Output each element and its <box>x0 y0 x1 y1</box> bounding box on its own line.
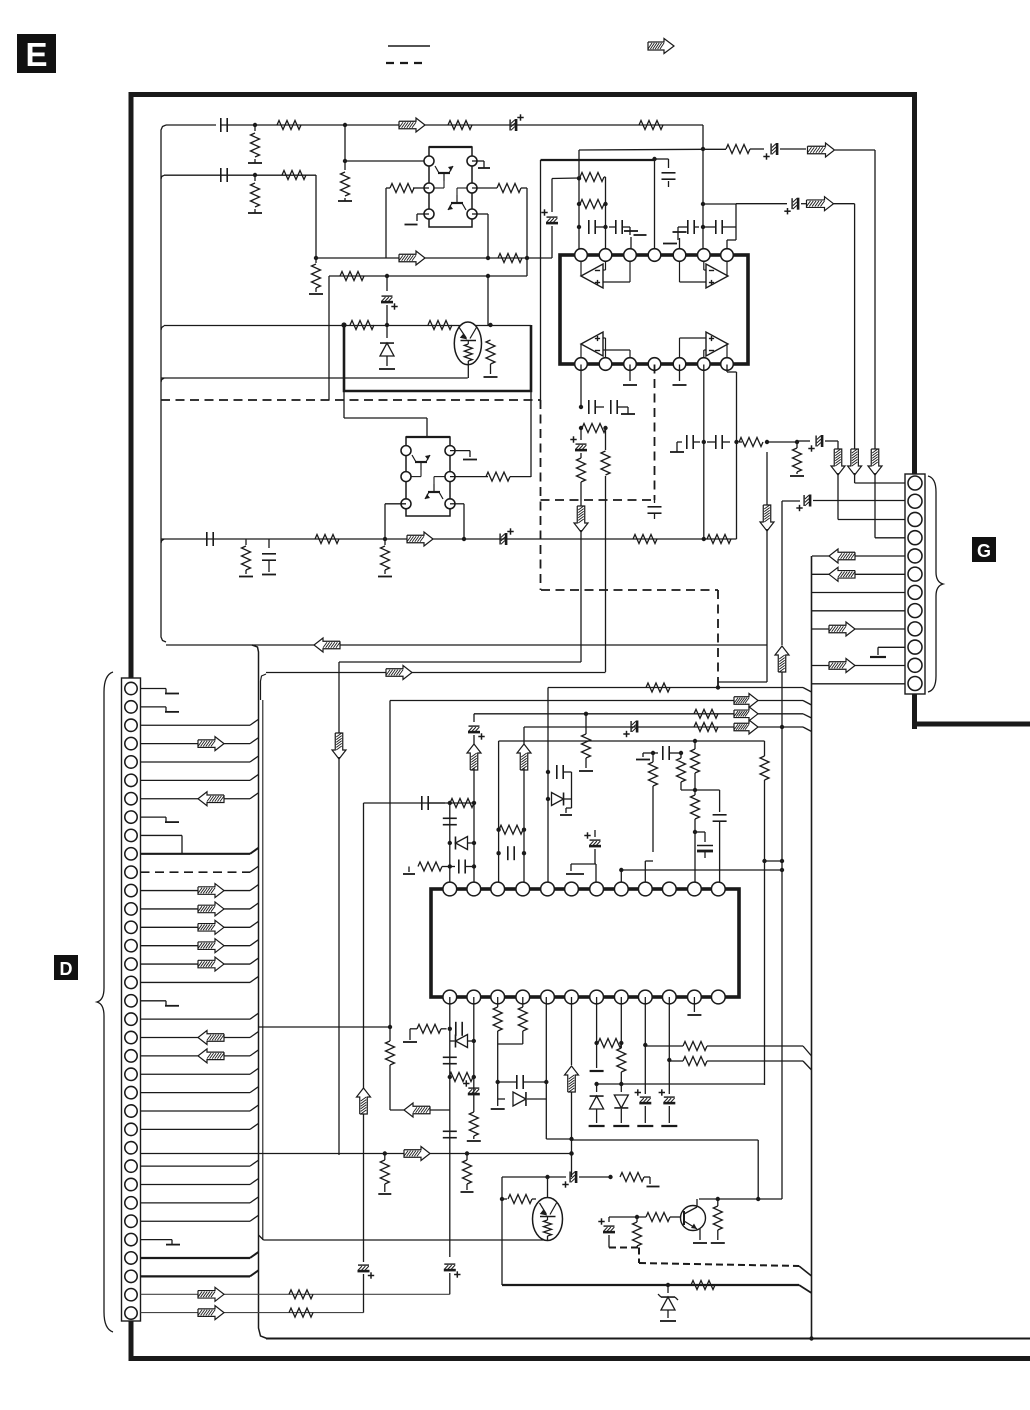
signal arrow A19 col339 down <box>332 733 346 759</box>
junction col499/row1082 <box>496 1080 500 1084</box>
resistor R33 row1294 <box>289 1290 313 1299</box>
connector D (35-pin) <box>122 678 141 1321</box>
ground IC1 pin5 bottom <box>673 365 687 386</box>
junction row727/col782 <box>780 725 784 729</box>
wire D pin9 elbow <box>141 835 183 853</box>
wire D pin7 <box>141 793 259 799</box>
wire D pin11 (dashed) <box>141 866 259 872</box>
junction col579/row178 <box>577 176 581 180</box>
ground stub row442 left <box>670 442 684 452</box>
wire bus inner curve <box>261 674 267 700</box>
junction col527/row258 <box>525 256 529 260</box>
dashed col655 below IC1 pin4 <box>654 365 656 501</box>
junction row258/col316 <box>314 256 318 260</box>
wire D pin13 <box>141 903 259 909</box>
capacitor C8 row227 left <box>684 220 699 234</box>
signal arrow A20 row258 <box>399 251 425 265</box>
signal arrow A6 col855 down <box>848 449 862 475</box>
dashed row590 <box>541 589 718 591</box>
junction col524/row830 <box>522 828 526 832</box>
junction row325/col490 <box>488 323 492 327</box>
wire col838 to G pin3 <box>838 473 905 520</box>
svg-text:D: D <box>60 959 73 979</box>
signal arrow D15 <box>198 939 224 953</box>
capacitor C41 (polarized) col669 <box>659 997 678 1126</box>
junction col548/row772 <box>546 770 550 774</box>
ground stub IC2 pin11 bottom <box>687 997 701 1015</box>
resistor R37 col653 <box>649 753 658 852</box>
resistor R19 row727 <box>694 723 718 732</box>
signal arrow D12 <box>198 884 224 898</box>
wire col838 corner down <box>837 441 839 449</box>
junction col474/row803 <box>472 801 476 805</box>
wire T2 bot-left to col385 <box>385 504 406 539</box>
wire D pin19 <box>141 1013 259 1019</box>
wire row418 hang <box>344 391 427 437</box>
signal arrow A23 row1110 <box>404 1103 430 1117</box>
wire col474 below IC2 <box>473 997 475 1112</box>
diode D2 row799 <box>548 793 572 806</box>
ground IC1 pin3 bottom <box>623 365 637 386</box>
signal arrow A3 row203 <box>807 197 834 211</box>
wire row1199 <box>699 1198 782 1200</box>
capacitor C26 row853 <box>508 846 514 860</box>
wire D pin28 <box>141 1178 259 1184</box>
capacitor C3 row2 <box>221 168 227 182</box>
resistor R45 col499 below IC2 <box>493 997 502 1044</box>
resistor R24 row325 <box>350 321 374 330</box>
capacitor C29 row753 <box>643 746 681 760</box>
wire col703 to row539 <box>703 442 705 539</box>
capacitor C16 row442 <box>707 435 730 449</box>
signal arrow A9 col782 up <box>775 646 789 672</box>
wire col541 solid <box>540 160 542 400</box>
resistor R20 row688 <box>646 683 670 692</box>
bold row1285 <box>502 1285 812 1293</box>
wire row1045 <box>645 1042 811 1057</box>
wire row178 left corner <box>552 177 579 180</box>
junction col579/row227 <box>577 225 581 229</box>
wire col579 (IC1 pin1 column up) <box>578 150 580 255</box>
junction row753/col653 <box>651 751 655 755</box>
dashed bold row1248 <box>609 1248 639 1264</box>
resistor R7 col345 to ground <box>338 161 352 201</box>
wire G pin12 row683 <box>812 683 905 685</box>
wire G pin11 row665 <box>812 665 905 667</box>
resistor R29 row539 <box>315 535 339 544</box>
junction row442/col797 <box>795 440 799 444</box>
capacitor C11 (polarized) row203 <box>784 198 806 215</box>
capacitor C9 row227 right <box>703 220 736 234</box>
wire row204 right seg <box>703 203 736 205</box>
junction col582/row407 <box>579 405 583 409</box>
zener diode ZD1 <box>658 1285 678 1321</box>
wire row1140 to col758 <box>572 1140 759 1199</box>
wire T2 bot-right to col464 <box>450 504 464 539</box>
signal arrow A12 G pin9 <box>829 622 855 636</box>
diode D6 col621 (down) <box>613 1095 629 1126</box>
diode D4 row1041 <box>450 1035 474 1048</box>
junction col499/row830 <box>496 828 500 832</box>
dashed row400 <box>161 399 541 401</box>
photocoupler PC2 <box>533 1198 563 1241</box>
junction col605/row227 <box>603 225 607 229</box>
junction col387/row325 <box>385 323 389 327</box>
wire trunk col782 lower <box>781 672 783 1199</box>
wire row790 <box>681 789 720 791</box>
capacitor C22 row539 <box>207 532 213 546</box>
wire col767 down <box>766 452 768 507</box>
wire col653 bottom <box>645 786 653 882</box>
junction col474/row1041 <box>472 1039 476 1043</box>
wire row203 <box>736 203 787 205</box>
junction col703/row442 <box>702 440 706 444</box>
wire trunk fillet row378 <box>161 378 164 382</box>
wire row645 <box>166 644 767 646</box>
junction col582/row428 <box>579 426 583 430</box>
resistor R9 T1 mid-right <box>472 184 527 193</box>
resistor R26 col490 below row325 <box>484 325 498 377</box>
capacitor C33 col450 <box>443 818 457 824</box>
wire col390 <box>389 701 391 1028</box>
signal arrow A24 col474 up <box>467 744 481 770</box>
wire D pin16 <box>141 958 259 964</box>
resistor R39 col695 <box>691 739 700 790</box>
wire row149 right <box>703 148 726 150</box>
wire col474 upper <box>473 714 475 722</box>
wire col527 <box>526 188 528 276</box>
ground stub D pin31 <box>141 1240 181 1245</box>
U1a feedback wires <box>603 262 630 282</box>
signal arrow D14 <box>198 920 224 934</box>
resistor R49 col385 <box>378 1154 391 1195</box>
resistor R18 row713 <box>694 709 718 718</box>
junction row1285/zener <box>666 1283 670 1287</box>
legend solid-line (shielded wiring key) <box>388 45 430 47</box>
wire col363 top corner <box>363 803 365 1088</box>
signal arrow A11 G pin6 <box>829 567 855 581</box>
ground stub T2 top-right <box>450 451 477 460</box>
wire row1083 <box>597 1083 765 1085</box>
wire col621 below IC2 <box>620 997 622 1048</box>
wire row688 <box>548 688 812 693</box>
wire row1 corner to col703 <box>0 0 1 1</box>
resistor R13 row428 <box>581 424 606 433</box>
diode D3 row843 <box>450 837 474 850</box>
wire row1 y=125 <box>166 124 703 126</box>
wire D pin29 <box>141 1197 259 1203</box>
capacitor C38 (polarized) col450 bottom <box>444 1264 461 1294</box>
signal arrow A5 col838 down <box>831 449 845 475</box>
wire col499 lower <box>497 1044 499 1099</box>
capacitor C21 (polarized) col387 <box>381 276 398 325</box>
bold wire U-loop <box>344 325 531 391</box>
bold capacitor C31 col705 <box>693 830 713 858</box>
resistor R38 col681 <box>677 753 686 790</box>
resistor R28 col246 to ground <box>239 539 253 577</box>
resistor R27 T2 mid-right <box>450 472 531 481</box>
diode D5 row1099 <box>498 1092 547 1106</box>
wire D pin4 <box>141 738 259 744</box>
wire col605 (IC1 pin2 column up) <box>605 177 607 255</box>
junction row258/col552 <box>0 0 1 1</box>
wire col621 to diode <box>620 1084 622 1092</box>
signal arrow A15 row714 <box>734 707 758 721</box>
dashed col541 <box>540 400 542 590</box>
wire col386 from R8 down <box>385 188 387 258</box>
resistor R6 row2 <box>282 171 306 180</box>
section label E <box>17 34 56 73</box>
wire row539 <box>161 538 737 540</box>
wire D pin10 (bold) <box>141 848 259 854</box>
ground stub T1 pin top-right <box>472 161 490 168</box>
wire trunk col812 <box>811 556 813 1339</box>
wire col548 (row688 to IC2 pin5) <box>547 688 549 883</box>
junction col464/row539 <box>462 537 466 541</box>
wire trunk left (node A) vertical x=161 <box>161 125 166 642</box>
wire row325 <box>161 326 531 331</box>
wire D pin12 <box>141 885 259 891</box>
section label G <box>972 537 996 562</box>
junction col345/row161 <box>343 159 347 163</box>
wire row727 <box>524 727 812 732</box>
junction col812/row1339 <box>809 1336 813 1340</box>
wire G pin7 row592 <box>812 592 905 594</box>
signal arrow A18 row672 <box>386 666 412 680</box>
connector G (12-pin) <box>905 474 925 694</box>
dashed row868 (D area) <box>140 871 142 873</box>
resistor R12 row149 <box>726 145 764 154</box>
resistor R11 row204 <box>579 200 606 209</box>
wire bus inner col263 <box>262 700 264 1240</box>
wire col450 below IC2 <box>449 997 451 1257</box>
resistor R4 row1 right <box>639 121 663 130</box>
capacitor C32 row803 <box>422 796 445 810</box>
wire D pin30 <box>141 1215 259 1221</box>
wire D pin6 <box>141 774 259 780</box>
capacitor C5 (polarized) col552 <box>541 179 558 259</box>
capacitor C15 row442 <box>687 435 700 449</box>
junction row159/col654 <box>652 157 656 161</box>
wire G pin5 row556 <box>812 555 905 557</box>
wire D pin22 <box>141 1068 259 1074</box>
capacitor C28 (polarized) col595 <box>584 830 601 864</box>
wire trunk col782 <box>781 501 783 645</box>
junction row442/col767 <box>765 440 769 444</box>
resistor R43 row1077 <box>448 1073 476 1082</box>
wire D pin21 <box>141 1050 259 1056</box>
wire row803 <box>364 802 475 804</box>
photocoupler PC1 <box>454 322 481 378</box>
board outline (thick border, left/top/right) <box>129 95 1030 1359</box>
wire col582 to row662 <box>580 530 582 662</box>
resistor R53 Q5 base <box>646 1213 681 1222</box>
ground elbow IC2 pin7 top <box>566 864 596 888</box>
signal arrow A21 row539 <box>407 532 433 546</box>
wire D pin5 <box>141 756 259 762</box>
dashed row500 <box>541 499 655 501</box>
resistor R55 row1285 <box>691 1281 715 1290</box>
transistor Q5 <box>681 1206 706 1231</box>
wire row2 y=175 <box>161 175 316 179</box>
junction row1199/col758 <box>756 1197 760 1201</box>
brace for connector D <box>97 672 113 1332</box>
wire D pin23 <box>141 1087 259 1093</box>
ground IC1 pin5 top <box>673 232 687 255</box>
resistor R46 col524 below IC2 <box>498 997 528 1044</box>
signal arrow A16 row727 <box>734 720 758 734</box>
resistor R36 row830 <box>499 825 523 834</box>
wire row1153 end junction <box>383 1151 574 1155</box>
wire D pin34 long (row1294) <box>141 1293 450 1295</box>
wire row1139 <box>546 1138 571 1140</box>
wire col571 seg <box>571 772 573 799</box>
resistor R17 col797 to ground <box>790 442 804 476</box>
resistor R40 col695 lower <box>691 790 700 882</box>
op-amp U1c <box>581 332 603 358</box>
junction row276/col488 <box>486 274 490 278</box>
wire T1 bot-right elbow to col488 <box>472 214 488 258</box>
wire col450 above IC2 <box>449 803 451 882</box>
wire bus col259 <box>252 645 267 1339</box>
wire col764 (row741 down) <box>760 741 784 1085</box>
signal arrow A10 G pin5 <box>829 549 855 563</box>
wire col474 to IC2 <box>473 803 475 882</box>
capacitor C34 row1029 <box>456 1022 474 1036</box>
junction col390/row1027 <box>388 1025 392 1029</box>
resistor R52 col637 <box>633 1217 642 1248</box>
junction col703/row204 <box>701 202 705 206</box>
dashed col718 <box>716 590 720 690</box>
wire row160 (bold) <box>541 159 655 161</box>
signal arrow D7 <box>198 792 224 806</box>
resistor R8 T1 mid-left <box>386 184 429 193</box>
resistor R3 row1 <box>448 121 472 130</box>
wire col654 (IC1 pin4 up) <box>654 159 656 255</box>
wire row442 to col797 <box>767 441 797 443</box>
wire row378 <box>161 377 468 379</box>
thick border above D <box>129 95 134 679</box>
wire col502 <box>500 1177 504 1285</box>
wire row662 <box>339 661 581 663</box>
junction col385/row539 <box>383 537 387 541</box>
diode D7 col596 (up) <box>589 1082 605 1126</box>
section label D <box>54 955 78 980</box>
wire row701 <box>390 701 812 706</box>
wire col363 to row1313 <box>363 1274 365 1313</box>
resistor R48 col621 <box>617 1048 626 1084</box>
signal-processor IC U2 <box>431 882 739 1004</box>
ground stub D pin8 <box>141 817 180 822</box>
junction bold/row325 <box>341 322 346 327</box>
transistor pair Q1/Q2 block <box>424 147 477 227</box>
wire col582 below IC1 <box>580 365 582 408</box>
signal arrow A26 col572 up <box>565 1066 579 1092</box>
wire col329 <box>328 276 330 400</box>
signal arrow A25 col524 up <box>517 744 531 770</box>
resistor R5 (to ground) col255b <box>248 175 262 213</box>
capacitor C14 (polarized) col582 <box>570 428 587 458</box>
wire col572 lower <box>569 1092 573 1177</box>
capacitor C4 end of row159 <box>655 159 676 187</box>
signal arrow D16 <box>198 957 224 971</box>
signal arrow A8 col767 down <box>760 505 774 531</box>
junction col474/row843 <box>472 841 476 845</box>
signal arrow A14 row701 <box>734 694 758 708</box>
resistor R1 (to ground) col255 <box>248 125 262 163</box>
wire row1177 chain <box>502 1171 660 1188</box>
brace for connector G <box>928 476 943 692</box>
capacitor C35 col450 <box>443 1057 457 1063</box>
wire row713 col586 <box>579 712 593 771</box>
signal arrow A22 row1153 <box>404 1147 430 1161</box>
resistor R23 row276 <box>340 272 364 281</box>
junction col605/row204 <box>603 202 607 206</box>
junction col605/row428 <box>603 426 607 430</box>
junction col736/row442 <box>734 440 738 444</box>
resistor R54 col718 <box>711 1199 725 1243</box>
capacitor C42 (polarized) col609 <box>598 1217 615 1248</box>
wire col703 (IC1 pin6 up to row125) <box>702 125 704 255</box>
resistor R15 col605 <box>601 428 610 672</box>
resistor R41 row803 <box>450 799 474 808</box>
wire row149-151 (pin1 col to top-right) <box>579 148 703 151</box>
capacitor C27 row772 <box>557 765 572 779</box>
capacitor C20 (polarized) row727 <box>623 721 637 738</box>
wire col524 mid <box>523 768 525 882</box>
wire col855 to G pin1 <box>855 473 905 483</box>
op-amp IC U1 (dual op-amp package) <box>560 249 748 371</box>
junction col450/row803 <box>448 801 452 805</box>
row866 chain <box>403 860 474 875</box>
junction col579/row204 <box>577 202 581 206</box>
wire col339 <box>338 662 340 735</box>
signal arrow D35 <box>198 1306 224 1320</box>
junction col499/row853 <box>496 851 500 855</box>
U1d feedback wires <box>680 338 707 357</box>
wire col572 oval top <box>545 1175 549 1198</box>
wire G pin9 row629 <box>812 628 905 630</box>
capacitor C12 row407 <box>589 400 604 414</box>
capacitor C6 row227 <box>579 220 606 234</box>
wire row741 <box>499 740 765 742</box>
wire G pin6 row574 <box>812 573 905 575</box>
ground bar IC2 pin7 bottom <box>590 997 604 1071</box>
ground stub row227 <box>630 227 647 235</box>
wire D pin33 (bold) <box>141 1270 259 1276</box>
wire D pin32 (bold) <box>141 1252 259 1258</box>
diode D1 col387 <box>379 325 395 369</box>
wire row203 corner col855 <box>833 204 855 449</box>
capacitor C17 (polarized) row442 <box>797 435 838 452</box>
capacitor C43 (polarized) col363 <box>358 1265 375 1279</box>
ground stub T1 bot-left <box>405 214 430 225</box>
resistor R2 row1 <box>277 121 301 130</box>
wire row1027 <box>259 1026 391 1028</box>
wire col390 lower + resistor R35 <box>386 1027 395 1110</box>
wire D pin17 <box>141 976 259 982</box>
capacitor C13 row407 <box>611 400 628 414</box>
wire row501 from col782 <box>782 500 800 502</box>
transistor pair Q3/Q4 block <box>401 437 455 516</box>
junction col703/row539 <box>702 537 706 541</box>
resistor R32 col385 below row539 <box>378 539 392 577</box>
ground stub D pin18 <box>141 1001 180 1006</box>
capacitor C1 row1 <box>216 118 227 132</box>
wire row1060 <box>669 1057 811 1071</box>
wire col736 above IC1 <box>727 204 736 255</box>
op-amp U1a <box>581 262 603 289</box>
